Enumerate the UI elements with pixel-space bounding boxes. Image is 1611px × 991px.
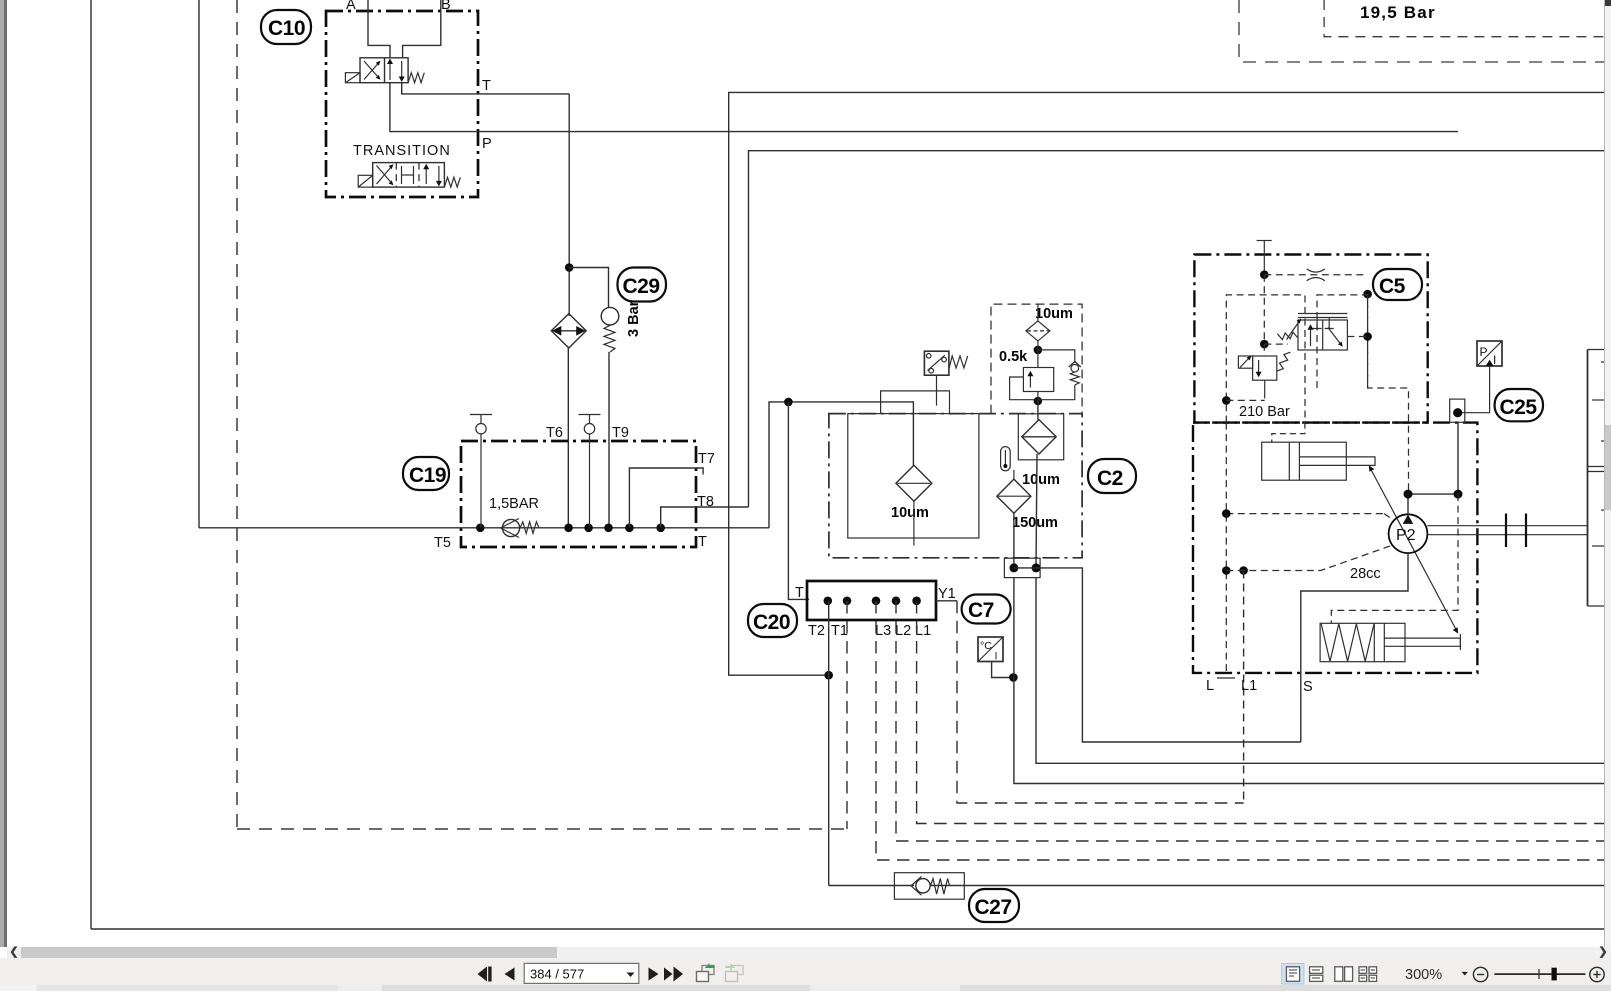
wire P from C10 <box>390 83 1458 132</box>
svg-text:384 / 577: 384 / 577 <box>530 967 584 982</box>
gearbox tick 2 <box>1592 545 1604 547</box>
node T2 junction <box>824 671 833 680</box>
regulator block C5 dash-dot border <box>1194 255 1427 423</box>
check valve C27 seat <box>911 877 922 896</box>
svg-text:°C: °C <box>980 640 992 652</box>
wire T8 <box>661 507 749 528</box>
pressure switch spring <box>949 356 968 368</box>
valve block C10 dash-dot border <box>326 11 478 197</box>
manifold line T5 <box>199 527 769 529</box>
shaft coupling <box>1506 514 1526 548</box>
compensator stub to node <box>1347 336 1367 338</box>
suction strainer diamond 150um <box>997 479 1031 513</box>
case drain dashed vertical L <box>1225 423 1227 671</box>
label C10 <box>261 10 311 44</box>
port L tick <box>1217 677 1235 679</box>
node T7 <box>625 524 634 533</box>
svg-text:C7: C7 <box>968 599 994 622</box>
svg-text:L2: L2 <box>895 623 911 639</box>
bias piston feedback dashed <box>1331 494 1458 623</box>
svg-text:S: S <box>1303 679 1313 695</box>
drawing frame bottom border <box>91 928 1604 930</box>
pump flow triangle <box>1403 515 1414 524</box>
pump block dash-dot border <box>1193 423 1477 673</box>
bypass filter diamond <box>1026 321 1050 341</box>
bypass valve loop <box>1010 377 1038 400</box>
bypass valve body <box>1023 368 1053 392</box>
bypass check valve branch <box>1038 350 1075 363</box>
node pilot mid <box>1260 340 1269 349</box>
wire temperature transmitter <box>992 662 1014 678</box>
28cc pointer dashed <box>1226 546 1390 571</box>
compensator left cell arrow <box>1308 324 1314 346</box>
orifice arcs <box>1307 269 1325 281</box>
pump L1 dashed drop <box>1243 571 1245 804</box>
wire T2 return main <box>729 92 1604 675</box>
wire L1 dashed <box>917 601 1604 824</box>
wire drain line B <box>1036 578 1604 764</box>
pilot branch dashed vertical <box>1263 275 1265 356</box>
svg-text:T1: T1 <box>831 623 848 639</box>
pressure transmitter P/I <box>1477 341 1502 367</box>
gearbox tick 1 <box>1592 399 1604 401</box>
page number combo box <box>524 963 639 983</box>
svg-text:L1: L1 <box>915 623 931 639</box>
main filter feed <box>1037 401 1039 420</box>
wire C27 outlet <box>931 885 1604 887</box>
compensator valve body <box>1298 320 1347 350</box>
wire Y1 stub <box>936 600 957 602</box>
bias cylinder body <box>1320 623 1405 661</box>
svg-text:T2: T2 <box>808 623 825 639</box>
svg-text:3 Bar: 3 Bar <box>626 300 642 337</box>
drive shaft <box>1427 526 1587 535</box>
svg-text:I: I <box>995 651 998 663</box>
cooler diamond <box>551 314 586 348</box>
pilot valve dashed box <box>1317 295 1368 388</box>
horizontal scrollbar <box>7 947 1611 958</box>
check valve C27 ball <box>916 879 930 893</box>
svg-text:C10: C10 <box>268 17 305 40</box>
pressure switch body <box>924 351 949 375</box>
spring of transition valve <box>444 177 460 187</box>
zoom out button <box>1473 967 1487 981</box>
next page button <box>649 968 659 981</box>
test point 2 symbol <box>579 415 601 528</box>
svg-text:T5: T5 <box>434 535 451 551</box>
svg-text:L: L <box>1206 678 1214 694</box>
compensator right cell arrow <box>1328 328 1343 347</box>
node pilot vent <box>1260 270 1269 279</box>
transition valve right arrows <box>423 164 442 187</box>
wire A to valve <box>368 0 390 58</box>
wire B to valve <box>403 0 441 58</box>
svg-text:I: I <box>1493 353 1496 367</box>
previous view button <box>697 964 715 981</box>
svg-text:300%: 300% <box>1405 967 1442 983</box>
node L line <box>1222 566 1231 575</box>
drawing frame left border <box>90 0 92 929</box>
swash plate arrow <box>1369 465 1458 633</box>
wire main filter to junction <box>1036 454 1037 568</box>
node junction above cooler <box>565 263 574 272</box>
pressure box 19,5 Bar outer dashed <box>1239 0 1604 62</box>
pressure switch lead <box>936 375 938 405</box>
node case drain <box>1222 509 1231 518</box>
pilot feedback path <box>1368 294 1409 494</box>
case drain dashed to pump <box>1226 513 1384 515</box>
check valve 1,5BAR ball <box>502 519 519 536</box>
gearbox edge marks <box>1601 362 1604 510</box>
pilot dashed line with orifice <box>1264 274 1367 276</box>
valve U1 crossed arrows left cell <box>364 61 381 80</box>
svg-text:P: P <box>1480 345 1488 359</box>
svg-text:10um: 10um <box>1035 306 1073 322</box>
svg-text:C29: C29 <box>623 275 660 298</box>
wire T8 riser to top edge <box>749 151 1605 507</box>
zoom in button <box>1590 967 1604 981</box>
pilot branch dashed stub <box>1264 343 1288 345</box>
label C19 <box>403 457 449 490</box>
svg-text:19,5 Bar: 19,5 Bar <box>1360 3 1436 22</box>
manifold block C19 dash-dot border <box>461 441 696 547</box>
servo cylinder body <box>1262 442 1347 480</box>
relief valve 210Bar spring <box>1277 352 1291 371</box>
pressure valves dashed box <box>1226 295 1305 423</box>
svg-text:L3: L3 <box>875 623 891 639</box>
svg-text:C19: C19 <box>409 464 446 487</box>
wire drain line C <box>1014 578 1604 784</box>
wire cooler to manifold <box>567 347 569 528</box>
node suction left <box>1009 563 1018 572</box>
node T9 <box>604 524 613 533</box>
svg-text:T: T <box>482 78 491 94</box>
P/I arrowhead <box>1486 360 1494 366</box>
drain dashed link <box>1226 399 1264 401</box>
spring of valve U1 <box>408 73 424 83</box>
svg-text:T: T <box>698 534 707 550</box>
node drain tee <box>1009 673 1018 682</box>
gearbox block left edge <box>1587 350 1589 607</box>
svg-text:C25: C25 <box>1500 396 1538 419</box>
tank unit C2 dash-dot boundary <box>829 414 1082 558</box>
C20 node L2 <box>892 597 901 606</box>
gearbox block top edge <box>1588 349 1605 351</box>
wire T7 <box>629 468 703 528</box>
wire T from C10 <box>402 83 570 94</box>
pressure switch tap line <box>881 391 950 414</box>
label C29 <box>618 268 667 302</box>
bypass check valve lower wire <box>1038 385 1075 400</box>
svg-text:28cc: 28cc <box>1350 566 1381 582</box>
bias rod <box>1384 638 1460 646</box>
wire C20 T port riser <box>788 402 809 600</box>
svg-text:C2: C2 <box>1097 467 1123 490</box>
servo cylinder rod <box>1299 457 1375 466</box>
svg-text:0.5k: 0.5k <box>999 349 1028 365</box>
relief valve C29 ball <box>601 307 619 325</box>
wire relief to manifold <box>608 352 610 528</box>
compensator pilot double line <box>1298 314 1347 329</box>
node pump outlet <box>1404 490 1413 499</box>
node compensator port <box>1363 332 1372 341</box>
single page mode button (active) <box>1282 964 1304 985</box>
node test point 2 <box>584 524 593 533</box>
node L1 line <box>1239 566 1248 575</box>
svg-text:C20: C20 <box>753 611 790 634</box>
4/3 transition valve body <box>373 163 445 188</box>
continuous mode button <box>1310 967 1323 982</box>
label C2 <box>1088 459 1136 493</box>
node T5-1 <box>476 524 485 533</box>
relief valve C29 spring <box>604 325 615 352</box>
vent symbol <box>1257 241 1272 275</box>
label C5 <box>1373 269 1422 300</box>
first page button <box>478 967 492 982</box>
system outer dashed boundary horizontal <box>237 828 847 830</box>
C20 node T2 <box>824 597 833 606</box>
node pilot corner <box>1363 290 1372 299</box>
wire L2 dashed <box>896 601 1604 841</box>
wire T down to cooler <box>568 94 570 316</box>
gearbox block bottom edge <box>1588 605 1605 607</box>
wire valve to node <box>1037 392 1039 402</box>
label C20 <box>748 604 797 637</box>
junction block C20 <box>807 581 936 620</box>
svg-text:10um: 10um <box>891 505 929 521</box>
suction wire from pump <box>1301 553 1408 742</box>
check valve C27 housing <box>894 873 964 900</box>
transition valve crossed arrows <box>377 164 394 185</box>
thermometer <box>1001 447 1011 471</box>
label C27 <box>969 889 1019 922</box>
svg-text:T8: T8 <box>697 494 714 510</box>
system outer dashed boundary vertical <box>236 0 238 829</box>
wire T2 down to C27 <box>828 601 830 886</box>
compensator spring <box>1277 332 1298 339</box>
P/I lead wire <box>1458 366 1490 413</box>
node 0.5k top <box>1034 346 1043 355</box>
svg-text:C5: C5 <box>1379 275 1406 298</box>
suction junction block <box>1004 558 1040 577</box>
return filter drain stub <box>913 501 915 545</box>
wire branch to relief C29 <box>569 268 608 308</box>
svg-text:150um: 150um <box>1012 515 1058 531</box>
wire strainer to junction <box>1013 513 1015 568</box>
valve U1 straight arrows right cell <box>387 59 405 83</box>
zoom slider tick <box>1538 969 1540 979</box>
viewer left gutter <box>0 0 4 947</box>
gearbox tick pair <box>1588 467 1605 472</box>
svg-text:P2: P2 <box>1396 527 1416 544</box>
node drain left <box>1222 396 1231 405</box>
svg-text:C27: C27 <box>975 896 1012 919</box>
bypass check valve spring <box>1070 372 1079 385</box>
case drain diagonal <box>1384 514 1392 519</box>
svg-text:T7: T7 <box>698 451 715 467</box>
transition valve H center <box>402 166 414 184</box>
main filter housing <box>1018 414 1063 460</box>
node suction right <box>1032 563 1041 572</box>
label C7 <box>962 595 1011 624</box>
check valve 1,5BAR spring <box>520 522 539 534</box>
wire diamond to node <box>1037 341 1039 368</box>
svg-text:A: A <box>346 0 356 13</box>
wire manifold to filter inlet <box>769 402 913 528</box>
return filter housing <box>848 414 979 538</box>
node T8 <box>656 524 665 533</box>
compensator adjust arrow <box>1287 319 1302 340</box>
return filter diamond 10um <box>896 465 932 501</box>
svg-text:TRANSITION: TRANSITION <box>353 143 451 159</box>
main filter diamond <box>1022 420 1056 454</box>
pressure box 19,5 Bar inner dashed <box>1324 0 1604 37</box>
two page mode button <box>1335 967 1353 982</box>
wire Y1 dashed to pump L1 <box>957 601 1244 803</box>
wire T1 dashed <box>846 601 848 829</box>
pump circle P2 <box>1389 514 1428 553</box>
node T6 <box>564 524 573 533</box>
node 0.5k bottom <box>1034 397 1043 406</box>
svg-text:210 Bar: 210 Bar <box>1239 404 1290 420</box>
node C25 <box>1453 408 1462 417</box>
pump outlet wire <box>1408 423 1458 515</box>
svg-text:T: T <box>795 585 804 601</box>
solenoid of valve U1 <box>345 73 360 83</box>
svg-text:B: B <box>441 0 451 13</box>
C20 node L1 <box>912 597 921 606</box>
svg-text:T9: T9 <box>612 425 629 441</box>
bottom toolbar <box>0 958 1611 985</box>
test point above node 1 <box>470 415 492 528</box>
wire C27 line <box>829 885 914 887</box>
servo pilot step <box>1272 423 1305 443</box>
svg-text:T6: T6 <box>546 425 563 441</box>
svg-text:Y1: Y1 <box>938 586 956 602</box>
svg-text:P: P <box>482 136 492 152</box>
temperature transmitter C/I <box>978 637 1003 663</box>
C20 node L3 <box>872 597 881 606</box>
wire bypass filter <box>1037 304 1039 321</box>
svg-text:L1: L1 <box>1241 678 1257 694</box>
C20 node T1 <box>843 597 852 606</box>
zoom slider track <box>1494 973 1585 975</box>
relief valve drain <box>1264 380 1266 398</box>
bypass unit dashed box <box>991 304 1082 414</box>
zoom slider thumb <box>1552 968 1557 981</box>
check valve 1,5BAR seat <box>501 519 520 538</box>
label C25 <box>1495 389 1543 421</box>
node filter inlet <box>784 398 793 407</box>
relief valve 210Bar adjuster <box>1238 356 1252 369</box>
tank return riser T5 net <box>198 0 200 528</box>
node outlet right <box>1454 490 1463 499</box>
previous page button <box>505 968 515 981</box>
wire L3 dashed <box>876 601 1604 860</box>
next view button (disabled) <box>726 964 744 981</box>
wire strainer stub up <box>1013 470 1015 479</box>
check valve C27 spring <box>931 879 950 895</box>
bias spring <box>1321 624 1374 661</box>
4/2 valve U1 body <box>360 58 408 83</box>
zoom dropdown arrow <box>1462 972 1468 976</box>
last page button <box>664 967 683 982</box>
solenoid of transition valve <box>358 175 373 187</box>
bypass check valve ball and seat <box>1069 362 1081 373</box>
svg-text:1,5BAR: 1,5BAR <box>489 496 539 512</box>
wire junction link <box>1014 567 1036 569</box>
svg-text:10um: 10um <box>1022 472 1060 488</box>
bias rod end <box>1459 634 1461 650</box>
relief valve 210Bar body <box>1253 356 1277 380</box>
two page continuous button <box>1359 967 1377 982</box>
wire suction line to pump <box>1036 568 1301 742</box>
C25 junction box <box>1450 399 1465 422</box>
